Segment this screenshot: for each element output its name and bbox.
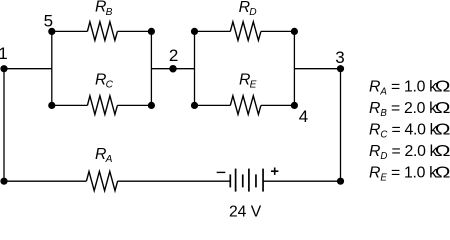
junction dot top of bar left of RD bbox=[191, 28, 198, 35]
wire bottom rail RA to battery bbox=[117, 180, 230, 182]
resistor RB zigzag bbox=[87, 22, 117, 41]
junction dot top of bar right of RB bbox=[148, 28, 155, 35]
wire bottom rail left segment to RA bbox=[4, 180, 86, 182]
resistor RA zigzag bbox=[86, 171, 117, 190]
resistor RC zigzag bbox=[87, 96, 117, 115]
wire bottom branch RE to right bar bbox=[261, 104, 295, 106]
svg-text:Ω: Ω bbox=[435, 163, 450, 181]
resistor RD zigzag bbox=[230, 22, 261, 41]
junction dot bottom of bar left of RE bbox=[191, 102, 198, 109]
svg-text:2: 2 bbox=[169, 46, 178, 65]
wire bottom rail battery to right bus bbox=[263, 180, 340, 182]
wire bottom branch RC to right bar bbox=[117, 104, 151, 106]
wire left bar of RB/RC parallel pair bbox=[51, 31, 53, 105]
node 1 junction dot bbox=[0, 65, 7, 72]
wire right vertical bus (node3 down to bottom rail) bbox=[340, 69, 342, 182]
battery plus terminal sign bbox=[271, 168, 278, 175]
svg-text:RA = 1.0 k: RA = 1.0 k bbox=[369, 79, 437, 98]
wire left vertical bus (node1 down to bottom rail) bbox=[3, 69, 5, 182]
node 3 junction dot bbox=[337, 65, 344, 72]
node 4 junction dot bbox=[291, 102, 298, 109]
battery minus terminal sign bbox=[217, 171, 226, 173]
wire right bar of RD/RE parallel pair bbox=[293, 31, 295, 105]
svg-text:RB = 2.0 k: RB = 2.0 k bbox=[369, 100, 437, 119]
wire right bar of RB/RC parallel pair bbox=[150, 31, 152, 105]
svg-text:5: 5 bbox=[44, 11, 53, 30]
wire node2 link between parallel pairs bbox=[151, 68, 194, 70]
wire top branch lead into RB bbox=[52, 30, 88, 32]
junction dot top of bar right of RD bbox=[291, 28, 298, 35]
resistor RE zigzag bbox=[230, 96, 261, 115]
wire bottom branch lead into RC bbox=[52, 104, 88, 106]
battery B1 24V plates bbox=[230, 169, 263, 192]
svg-text:Ω: Ω bbox=[435, 77, 450, 95]
junction dot bottom right corner bbox=[337, 178, 344, 185]
svg-text:RA: RA bbox=[95, 146, 113, 165]
wire node1 to left bar bbox=[4, 68, 52, 70]
svg-text:Ω: Ω bbox=[435, 120, 450, 138]
junction dot bottom of left bar bbox=[48, 102, 55, 109]
svg-text:RD = 2.0 k: RD = 2.0 k bbox=[369, 143, 438, 162]
svg-text:3: 3 bbox=[335, 48, 344, 67]
svg-text:Ω: Ω bbox=[435, 99, 450, 117]
wire node2-pair to node3 bbox=[294, 68, 340, 70]
svg-text:1: 1 bbox=[0, 44, 8, 63]
wire bottom branch lead into RE bbox=[195, 104, 231, 106]
svg-text:RC = 4.0 k: RC = 4.0 k bbox=[369, 122, 438, 141]
wire top branch RD to right bar bbox=[261, 30, 295, 32]
svg-text:RB: RB bbox=[95, 0, 113, 18]
wire top branch RB to right bar bbox=[117, 30, 151, 32]
wire left bar of RD/RE parallel pair bbox=[194, 31, 196, 105]
svg-text:RE: RE bbox=[239, 71, 257, 90]
svg-text:RE = 1.0 k: RE = 1.0 k bbox=[369, 165, 437, 184]
svg-text:RC: RC bbox=[95, 72, 114, 91]
svg-text:RD: RD bbox=[239, 0, 258, 18]
wire top branch lead into RD bbox=[195, 30, 231, 32]
junction dot bottom left corner bbox=[0, 178, 7, 185]
junction dot bottom of bar right of RC bbox=[148, 102, 155, 109]
svg-text:4: 4 bbox=[299, 107, 308, 126]
node 2 junction dot bbox=[169, 65, 177, 73]
node 5 junction dot bbox=[48, 28, 55, 35]
svg-text:24 V: 24 V bbox=[229, 203, 262, 217]
svg-text:Ω: Ω bbox=[435, 142, 450, 160]
